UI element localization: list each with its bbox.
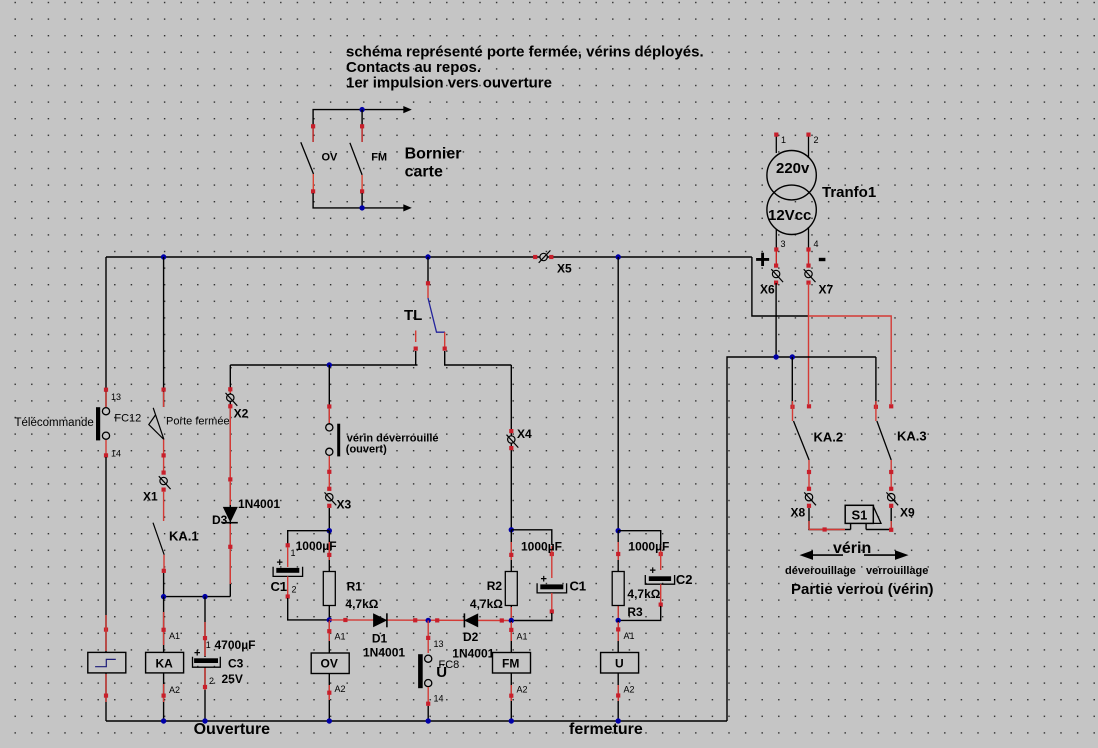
wire KA.2 left leg <box>791 357 793 405</box>
svg-text:1: 1 <box>781 135 786 145</box>
svg-text:R2: R2 <box>487 579 503 593</box>
svg-text:1000µF: 1000µF <box>628 540 669 554</box>
terminal transformer pin 2 <box>806 133 810 159</box>
junction KA.2 branch <box>790 354 795 359</box>
wire TL common <box>426 257 430 298</box>
wire TL left contact to y365 <box>415 351 417 365</box>
svg-text:fermeture: fermeture <box>569 721 643 738</box>
svg-text:Partie verrou (vérin): Partie verrou (vérin) <box>791 581 934 598</box>
wire FM coil column <box>510 621 512 653</box>
arrow verrouillage (right) <box>864 550 909 560</box>
switch FC8 contact circles <box>425 655 432 687</box>
relay coil KA <box>146 652 184 673</box>
junction bottom bus C3 <box>202 718 207 723</box>
svg-text:2: 2 <box>814 135 819 145</box>
svg-text:X2: X2 <box>234 407 249 421</box>
connector X2 <box>226 387 238 408</box>
svg-text:D1: D1 <box>372 632 388 646</box>
switch KA.1 blade <box>153 523 164 555</box>
transformer Tranfo1 secondary winding <box>767 185 816 234</box>
svg-text:TL: TL <box>404 307 422 324</box>
svg-text:12Vcc: 12Vcc <box>768 207 811 224</box>
svg-text:X7: X7 <box>819 283 834 297</box>
switch FC12 actuator bar <box>96 407 100 440</box>
svg-text:4,7kΩ: 4,7kΩ <box>627 587 660 601</box>
svg-text:KA.3: KA.3 <box>897 429 927 444</box>
step symbol inside telerupteur <box>95 659 116 666</box>
svg-text:OV: OV <box>321 657 338 671</box>
terminal bornier FM top <box>360 124 364 142</box>
svg-text:D2: D2 <box>463 630 479 644</box>
wire C1 mid branch top <box>511 530 552 545</box>
svg-text:4: 4 <box>814 239 819 249</box>
wire bornier FM leg top <box>361 110 363 126</box>
switch OV blade <box>301 142 314 174</box>
terminal R3 top <box>616 542 620 560</box>
terminal telerupteur bottom <box>104 674 108 702</box>
wire X3 to junction <box>328 508 330 531</box>
svg-text:+: + <box>650 565 656 577</box>
svg-text:A2: A2 <box>517 685 528 695</box>
diode D3 <box>223 507 238 523</box>
terminal U A1 <box>616 622 620 641</box>
wire bornier top line with arrow <box>313 106 412 126</box>
junction top bus / porte fermee column <box>161 254 166 259</box>
terminal porte fermee top <box>162 388 166 408</box>
wire X2 to D3 (red) <box>229 408 231 478</box>
svg-text:13: 13 <box>111 392 121 402</box>
svg-text:U: U <box>615 657 624 671</box>
svg-text:X6: X6 <box>760 283 775 297</box>
wire KA to bottom bus <box>162 673 166 721</box>
svg-text:X4: X4 <box>517 427 532 441</box>
svg-text:+: + <box>755 244 770 274</box>
svg-text:13: 13 <box>434 639 444 649</box>
svg-text:KA.1: KA.1 <box>169 529 199 544</box>
svg-text:KA: KA <box>156 657 174 671</box>
wire bornier bottom line with arrow <box>313 193 412 212</box>
resistor R3 <box>612 572 624 606</box>
svg-text:1000µF: 1000µF <box>296 539 337 553</box>
switch porte fermee blade and flag <box>149 408 164 440</box>
svg-text:X8: X8 <box>791 506 806 520</box>
svg-text:C3: C3 <box>228 657 244 671</box>
wire C2 branch top <box>618 531 661 545</box>
transformer Tranfo1 primary winding <box>767 151 816 200</box>
wire C1 left branch top <box>288 531 330 545</box>
wire C2 bottom corner <box>618 606 661 620</box>
svg-text:A2: A2 <box>335 684 346 694</box>
svg-text:Ouverture: Ouverture <box>194 721 271 738</box>
wire bottom bus <box>106 720 727 722</box>
svg-text:KA.2: KA.2 <box>814 430 844 445</box>
connector X5 <box>533 250 553 262</box>
switch TL blade <box>428 298 445 332</box>
svg-text:carte: carte <box>405 164 443 181</box>
actuator S1 (verin) <box>845 505 881 529</box>
terminal transformer pin 3 <box>774 229 778 252</box>
terminal KA.3 left <box>874 401 878 421</box>
verin-deverrouille actuator bar <box>337 424 340 457</box>
terminal X2 top <box>229 388 231 393</box>
junction KA.1 / KA coil <box>161 594 166 599</box>
label minus <box>819 258 826 261</box>
svg-text:+: + <box>194 648 200 660</box>
wire horizontal y=365 left <box>230 364 417 366</box>
wire red row y=620.5 (D1-D2 net) <box>329 618 511 623</box>
junction bornier bottom <box>359 205 364 210</box>
terminal KA.2 right (minus net) <box>807 404 811 408</box>
junction OV group top <box>327 528 332 533</box>
svg-text:4,7kΩ: 4,7kΩ <box>470 597 503 611</box>
terminal KA.2 left <box>790 401 794 421</box>
terminal verin sensor top <box>327 404 331 423</box>
junction R2 group top <box>509 527 514 532</box>
svg-text:(ouvert): (ouvert) <box>346 444 387 456</box>
wire telerupteur to bottom bus <box>105 673 107 721</box>
svg-text:FM: FM <box>502 657 519 671</box>
wire X4 column <box>510 365 512 530</box>
wire C1 mid to node <box>550 593 554 614</box>
wire U coil column <box>617 620 619 652</box>
arrow deverrouillage (left) <box>800 550 844 560</box>
wire C2 to node <box>659 584 663 608</box>
svg-text:14: 14 <box>434 694 444 704</box>
capacitor C2 <box>645 575 674 584</box>
connector X7 <box>804 264 816 285</box>
wire KA.1 to node <box>163 573 165 597</box>
connector X8 <box>804 487 816 508</box>
relay coil FM <box>493 653 531 674</box>
wire D3 cathode (red) <box>228 481 232 584</box>
svg-text:14: 14 <box>111 449 121 459</box>
wire right rail <box>727 357 876 721</box>
junction FM group bottom <box>509 618 514 623</box>
svg-text:Bornier: Bornier <box>405 146 462 163</box>
terminal C2 pin1 <box>659 546 663 570</box>
svg-text:X1: X1 <box>143 490 158 504</box>
wire X8-S1 red overlay <box>809 521 845 532</box>
svg-text:Contacts au repos.: Contacts au repos. <box>346 59 481 76</box>
svg-text:FC12: FC12 <box>114 413 141 425</box>
svg-text:R3: R3 <box>627 605 643 619</box>
wire left rail lower <box>105 457 107 652</box>
diode D2 <box>464 613 478 627</box>
svg-text:2: 2 <box>209 676 214 686</box>
terminal FM A1 <box>509 622 513 641</box>
terminal KA A1 <box>162 612 166 645</box>
switch verin-deverrouille contact circles <box>326 424 333 456</box>
wire KA.3 blade to X9 <box>889 460 893 489</box>
svg-text:1N4001: 1N4001 <box>238 497 280 511</box>
wire top bus <box>106 256 752 258</box>
wire KA.3 left leg <box>875 357 877 405</box>
wire porte fermee to X1 <box>162 440 166 473</box>
svg-text:A2: A2 <box>624 685 635 695</box>
svg-text:220v: 220v <box>776 160 810 177</box>
wire C3 branch <box>204 597 206 657</box>
wire R3 bottom red stub <box>617 606 619 619</box>
wire D3 column <box>229 365 231 597</box>
svg-text:X3: X3 <box>337 498 352 512</box>
wire C1 mid bottom corner <box>511 613 552 621</box>
wire KA.2 blade to X8 <box>807 460 811 489</box>
junction bottom bus OV <box>327 718 332 723</box>
svg-text:1N4001: 1N4001 <box>363 646 405 660</box>
svg-text:2: 2 <box>292 585 297 595</box>
connector X1 <box>159 471 171 492</box>
svg-text:R1: R1 <box>347 580 363 594</box>
junction top bus / TL column <box>425 254 430 259</box>
svg-text:A2: A2 <box>169 685 180 695</box>
wire C1 left to node (red) <box>286 576 290 598</box>
svg-text:1er impulsion vers ouverture: 1er impulsion vers ouverture <box>346 75 552 92</box>
wire verin-deverrouille column upper <box>328 365 330 424</box>
terminal transformer pin 4 <box>806 227 810 252</box>
wire R2 bottom red stub <box>510 607 512 619</box>
junction bottom bus U <box>616 718 621 723</box>
svg-text:25V: 25V <box>222 672 243 686</box>
junction C3 branch <box>202 594 207 599</box>
wire C1 left bottom corner <box>288 598 330 620</box>
connector X4 <box>507 429 519 450</box>
svg-text:déverouillage: déverouillage <box>785 565 856 577</box>
terminal KA.3 right (minus net) <box>889 404 893 408</box>
svg-text:4,7kΩ: 4,7kΩ <box>345 597 378 611</box>
svg-text:Télécommande: Télécommande <box>15 417 94 429</box>
svg-text:Porte fermée: Porte fermée <box>166 416 230 428</box>
terminal FC8 pin14 <box>426 687 430 706</box>
junction FC8 node <box>426 618 431 623</box>
svg-text:+: + <box>277 557 283 569</box>
wire OV to bottom bus <box>327 674 331 722</box>
terminal D3 anode <box>228 477 232 481</box>
svg-text:A1: A1 <box>335 632 346 642</box>
svg-text:X5: X5 <box>557 262 572 276</box>
resistor R2 <box>505 572 517 606</box>
wire left rail upper <box>105 257 107 407</box>
svg-text:verrouillage: verrouillage <box>866 565 928 577</box>
wire R1 column <box>328 531 330 620</box>
connector X9 <box>886 487 898 508</box>
wire R2 column <box>510 530 512 621</box>
terminal C3 pin1 <box>203 622 207 656</box>
wire X9-S1 red overlay <box>889 521 893 532</box>
junction bottom bus FM <box>509 718 514 723</box>
svg-text:C1: C1 <box>570 579 587 594</box>
terminal FC12 pin 14 <box>104 440 108 458</box>
wire OV coil column <box>328 620 330 653</box>
svg-text:1000µF: 1000µF <box>521 540 562 554</box>
junction bornier top <box>359 107 364 112</box>
svg-text:D3: D3 <box>212 513 228 527</box>
capacitor C3 <box>193 657 221 668</box>
note text top <box>346 44 704 92</box>
wire minus red net X7 down <box>808 283 810 404</box>
svg-text:Ü: Ü <box>436 664 447 681</box>
junction U group bottom <box>616 618 621 623</box>
wire minus red net to KA.3 <box>809 316 891 404</box>
junction top bus / U column <box>616 254 621 259</box>
switch FC12 contact circles <box>102 408 109 440</box>
wire U to bottom bus <box>616 673 620 721</box>
terminal R1 top <box>327 542 331 560</box>
impulse relay box (telerupteur) <box>88 652 126 673</box>
wire porte fermee column upper <box>163 257 165 407</box>
svg-text:4700µF: 4700µF <box>215 638 256 652</box>
svg-text:1: 1 <box>206 640 211 650</box>
resistor R1 <box>323 572 335 606</box>
relay coil U <box>601 653 639 674</box>
svg-text:FM: FM <box>371 152 387 164</box>
label Bornier carte <box>405 146 462 181</box>
svg-text:X9: X9 <box>900 506 915 520</box>
terminal TL right contact <box>443 332 447 351</box>
wire X8 to S1 <box>809 508 851 530</box>
svg-text:A1: A1 <box>517 632 528 642</box>
terminal bornier OV top <box>311 124 315 142</box>
junction X6 / plus rail <box>773 354 778 359</box>
switch FM blade <box>350 143 362 175</box>
wire C3 to bottom bus <box>203 667 207 721</box>
label verin deverrouille <box>346 433 439 456</box>
svg-text:A1: A1 <box>169 631 180 641</box>
svg-text:schéma représenté porte fermée: schéma représenté porte fermée, vérins d… <box>346 44 704 61</box>
terminal TL left contact <box>414 331 418 351</box>
wire X7 stub <box>808 251 810 264</box>
terminal C1 mid pin1 <box>550 546 554 578</box>
wire verin sensor to X3 (red) <box>327 456 331 489</box>
svg-text:C1: C1 <box>271 579 288 594</box>
connector X3 <box>325 487 337 508</box>
switch KA.2 blade <box>794 421 810 460</box>
svg-text:Tranfo1: Tranfo1 <box>822 184 876 201</box>
terminal KA.1 bottom <box>162 555 166 573</box>
wire TL right contact to X4 column <box>445 351 512 365</box>
svg-text:3: 3 <box>781 239 786 249</box>
svg-text:+: + <box>541 574 547 586</box>
svg-text:C2: C2 <box>676 572 693 587</box>
terminal FC8 pin13 <box>426 620 430 653</box>
diode D1 <box>373 613 387 627</box>
capacitor C1 left <box>273 567 303 577</box>
svg-text:S1: S1 <box>852 508 868 523</box>
capacitor C1 mid <box>537 583 567 593</box>
terminal OV A1 <box>327 621 331 641</box>
terminal FC12 pin 13 <box>104 388 108 407</box>
svg-text:OV: OV <box>322 152 339 164</box>
wire FC8 to bottom bus <box>427 706 429 721</box>
junction OV group bottom <box>327 617 332 622</box>
connector X6 <box>771 264 783 285</box>
terminal telerupteur top <box>104 615 108 651</box>
wire plus rail from top bus to X6 net <box>752 257 809 357</box>
terminal bornier FM bottom <box>360 175 364 193</box>
wire FM to bottom bus <box>509 673 513 721</box>
junction bottom bus FC8 <box>426 718 431 723</box>
svg-text:A1: A1 <box>624 631 635 641</box>
terminal C1 left pin1 <box>286 543 290 567</box>
svg-text:1: 1 <box>291 548 296 558</box>
switch KA.3 blade <box>877 421 891 460</box>
junction R3 group top <box>616 528 621 533</box>
wire X1 to KA.1 <box>163 491 165 521</box>
switch FC8 actuator bar <box>418 654 423 688</box>
terminal transformer pin 1 <box>774 133 778 154</box>
wire KA coil column <box>163 597 165 653</box>
terminal R2 top <box>509 542 513 560</box>
relay coil OV <box>311 653 349 674</box>
junction bottom bus KA <box>161 718 166 723</box>
terminal bornier OV bottom <box>311 174 315 193</box>
wire X9 to S1 <box>866 508 891 530</box>
wire X6 stub <box>775 251 777 264</box>
wire R3 column <box>617 531 619 621</box>
wire horizontal node row y=597 <box>164 596 231 598</box>
junction y365 / verin column <box>327 362 332 367</box>
wire U column long <box>617 257 619 531</box>
